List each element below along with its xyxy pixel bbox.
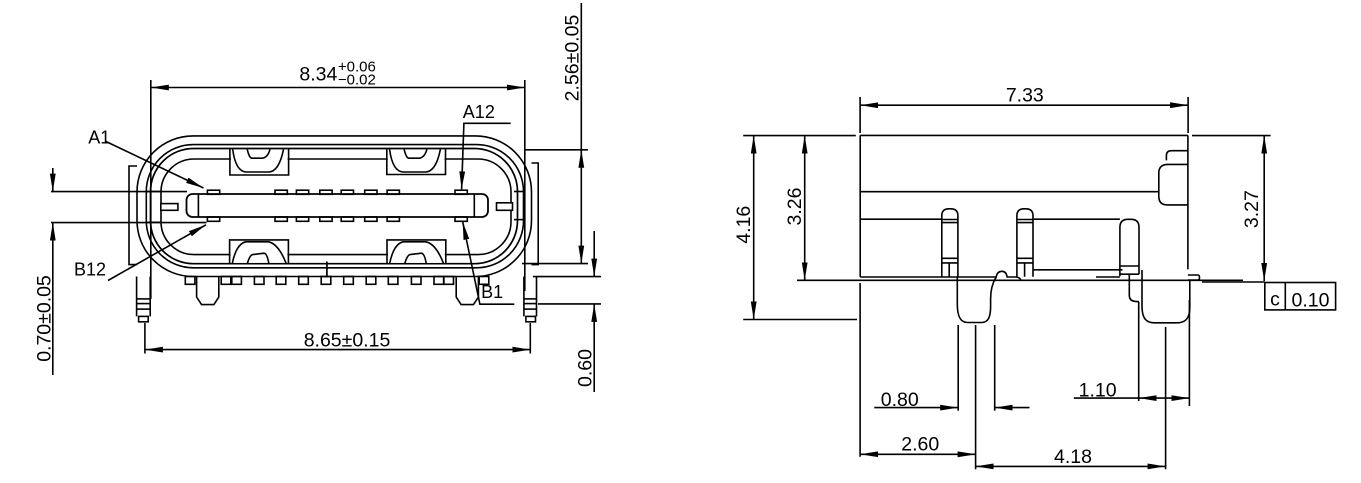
side view: terminal 1 (front pin) (942, 209, 958, 277)
side view: internal line lower (860, 218, 942, 220)
front view: bottom SMT pin row (185, 277, 489, 285)
dimension 0.80 line left segment (874, 407, 958, 409)
dimension 0.60 line lower segment (593, 304, 595, 392)
front view: bottom-left spring cutout window (230, 240, 289, 264)
front view: right through-hole leg (524, 277, 537, 322)
front view: side weld line top-left (147, 191, 162, 193)
side view: terminal 2 (middle pin) (1017, 209, 1033, 277)
svg-text:2.60: 2.60 (901, 434, 939, 456)
front view: left plastic peg (197, 277, 219, 305)
svg-text:0.10: 0.10 (1292, 290, 1330, 312)
svg-text:B1: B1 (481, 282, 503, 302)
front view: inner can outer stadium (151, 149, 518, 264)
dimension 3.27 bottom extension line (1202, 281, 1265, 283)
svg-text:0.60: 0.60 (575, 349, 597, 387)
side view: rear terminal pin (1188, 275, 1200, 280)
front view: left side tab (129, 166, 137, 265)
dimension 8.34 line (151, 87, 525, 89)
svg-text:A12: A12 (463, 102, 495, 122)
front view: bottom-right spring cutout window (387, 240, 446, 264)
front view: tongue left cap divider (197, 194, 199, 217)
side view: body right edge (1187, 135, 1189, 269)
dimension 1.10 line (1074, 397, 1139, 399)
svg-text:1.10: 1.10 (1079, 380, 1117, 402)
dimension 7.33 extension lines (859, 97, 861, 133)
dimension 8.65 line (145, 349, 530, 351)
side view: top right bump tab (1159, 151, 1188, 205)
svg-text:7.33: 7.33 (1006, 85, 1044, 107)
dimension 2.56 line (580, 3, 582, 150)
dimension 3.27 line (1263, 136, 1265, 281)
dimension 0.80 line right segment (995, 407, 1030, 409)
front view: inner can inner stadium (161, 159, 511, 255)
side view: terminal 3 (rear leg) (1120, 219, 1139, 301)
front view: side weld line bottom-right (514, 219, 525, 221)
dimension 0.80 extension lines (957, 325, 959, 411)
front view: contact pads B row (bottom) (207, 217, 467, 221)
front view: contact pads A row (top) (207, 190, 467, 194)
front view: right plastic peg (456, 277, 478, 305)
dimension 2.56 extension lines (525, 149, 588, 151)
side view: rear bottom step line (1033, 269, 1123, 271)
front view: tongue (187, 194, 489, 217)
svg-text:8.34: 8.34 (299, 64, 337, 86)
side view: seating plane line (3.26 ext) (797, 279, 1243, 281)
front view: side weld line bottom-left (147, 221, 162, 223)
leader A12 (462, 123, 511, 189)
front view: shell inner wall stadium (146, 145, 523, 268)
dimension 4.16 bottom extension line (743, 319, 857, 321)
leader B12 (108, 225, 206, 281)
svg-text:8.65±0.15: 8.65±0.15 (304, 330, 391, 352)
dimension 2.60 extension lines (859, 283, 861, 457)
datum feature box (1265, 283, 1336, 310)
svg-text:3.26: 3.26 (784, 188, 806, 226)
svg-text:0.70±0.05: 0.70±0.05 (34, 275, 56, 362)
front view: bottom centerline tick (326, 262, 328, 278)
dimension 0.70 line lower segment (52, 223, 54, 375)
side view: internal line upper (860, 191, 1159, 193)
side view: body top line with extensions (743, 135, 856, 137)
dimension 8.34 extension lines (150, 80, 152, 299)
front view: side weld line top-right (514, 191, 525, 193)
front view: top-left spring cutout window (230, 149, 289, 175)
dimension 0.60 line upper segment (593, 231, 595, 277)
dimension 0.60 extension lines (533, 276, 601, 278)
front view: right side tab (532, 163, 539, 265)
svg-text:2.56±0.05: 2.56±0.05 (562, 15, 584, 102)
svg-text:B12: B12 (74, 260, 106, 280)
svg-text:4.18: 4.18 (1054, 446, 1092, 468)
dimension 3.26 line (804, 136, 806, 281)
front view: left latch window (161, 204, 178, 211)
side view: rear foot (1142, 270, 1190, 323)
front view: top-right spring cutout window (387, 149, 446, 175)
dimension 7.33 line (860, 104, 1188, 106)
front view: right latch window (497, 203, 513, 211)
front view: outer shell stadium (137, 136, 532, 277)
dimension 4.18 extension line (1165, 327, 1167, 469)
svg-text:0.80: 0.80 (881, 389, 919, 411)
dimension 0.70 line upper segment (52, 168, 54, 192)
side view: body bottom line (860, 271, 1021, 280)
leader A1 (106, 142, 204, 189)
svg-text:4.16: 4.16 (733, 206, 755, 244)
front view: left through-hole leg (137, 277, 151, 322)
dimension 0.70 extension lines (51, 191, 187, 193)
dimension 2.60 line (860, 453, 976, 455)
leader B1 (463, 222, 515, 304)
dimension 4.16 line (753, 136, 755, 320)
svg-text:c: c (1270, 289, 1280, 311)
svg-text:A1: A1 (88, 128, 110, 148)
front view: tongue right cap divider (473, 194, 475, 217)
dimension 1.10 extension lines (1138, 302, 1140, 401)
dimension 8.65 extension lines (144, 323, 146, 354)
side view: body left edge (859, 135, 861, 277)
dimension 4.18 line (976, 465, 1166, 467)
side view: front foot (957, 277, 996, 323)
svg-text:−0.02: −0.02 (338, 72, 376, 89)
svg-text:3.27: 3.27 (1241, 190, 1263, 228)
